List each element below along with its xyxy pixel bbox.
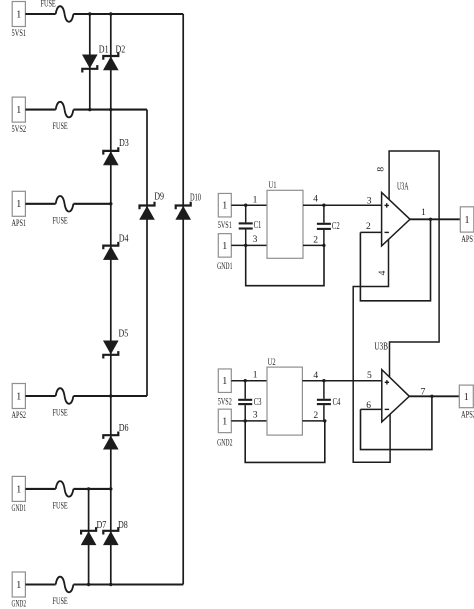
svg-text:D4: D4	[119, 234, 129, 245]
wire U2 bypass loop (pin 3 to pin 2)	[245, 421, 325, 463]
wire APS1 to fuse F3	[25, 203, 55, 205]
zener diode D4	[103, 242, 118, 260]
svg-text:4: 4	[313, 371, 318, 381]
svg-text:C2: C2	[332, 221, 340, 232]
junction C4 bottom	[323, 419, 326, 422]
junction GND2/diode col	[109, 583, 112, 586]
wire GND1 rail	[73, 488, 110, 490]
svg-text:GND1: GND1	[12, 504, 27, 514]
svg-text:GND2: GND2	[217, 438, 232, 448]
wire U3A feedback (output to pin 2)	[360, 219, 430, 300]
wire U3B feedback (output to pin 6)	[361, 396, 432, 449]
wire U3A pin 2 input	[360, 231, 381, 233]
svg-text:5VS1: 5VS1	[218, 221, 232, 231]
junction C4 top	[322, 379, 325, 382]
svg-text:3: 3	[253, 235, 258, 245]
fuse F3	[56, 196, 74, 212]
U3B plus input marker	[385, 380, 389, 384]
IC U1	[267, 190, 303, 258]
svg-text:1: 1	[16, 484, 21, 495]
connector 5VS2 (left, pin 1)	[12, 97, 25, 122]
svg-text:D5: D5	[119, 329, 129, 340]
svg-text:D10: D10	[190, 193, 201, 204]
junction APS2/diode col	[109, 394, 112, 397]
wire GND2 rail	[73, 583, 183, 585]
svg-text:4: 4	[313, 195, 318, 205]
svg-text:3: 3	[253, 410, 258, 420]
svg-text:7: 7	[421, 388, 426, 398]
svg-text:8: 8	[377, 167, 387, 172]
op-amp U3A	[382, 193, 410, 246]
svg-text:APS2: APS2	[461, 411, 474, 421]
wire D1 branch (5VS1 to 5VS2)	[89, 14, 91, 110]
svg-text:FUSE: FUSE	[53, 122, 68, 132]
wire 5VS2 to U2 pin 1	[231, 380, 267, 382]
zener diode D1	[82, 55, 97, 73]
fuse F2	[56, 102, 74, 118]
svg-text:1: 1	[464, 392, 469, 403]
junction C2 bottom	[322, 244, 325, 247]
wire APS1 rail	[73, 203, 110, 205]
wire U3B output	[409, 395, 459, 397]
svg-text:D6: D6	[119, 423, 129, 434]
junction U3A output/feedback	[429, 218, 432, 221]
U3A plus input marker	[385, 203, 389, 207]
svg-text:2: 2	[313, 235, 318, 245]
svg-text:1: 1	[16, 199, 21, 210]
junction C3 top	[244, 379, 247, 382]
svg-text:U3A: U3A	[397, 181, 409, 193]
IC U2	[267, 367, 302, 435]
junction 5VS1/D2	[109, 12, 112, 15]
zener diode D3	[103, 147, 118, 165]
wire U3A pin 8 supply rail	[389, 151, 439, 379]
fuse F5	[56, 481, 74, 497]
svg-text:D7: D7	[97, 520, 107, 531]
svg-text:FUSE: FUSE	[53, 409, 68, 419]
wire U2 pin 2	[302, 420, 325, 422]
svg-text:D9: D9	[154, 191, 164, 202]
zener diode D10	[176, 202, 191, 220]
svg-text:GND1: GND1	[217, 262, 232, 272]
svg-text:2: 2	[313, 411, 318, 421]
junction C1 top	[244, 204, 247, 207]
wire U1 pin 2	[303, 244, 325, 246]
connector GND2 (left, pin 1)	[12, 572, 25, 597]
junction APS1/diode col	[109, 202, 112, 205]
wire U2 pin 4 to U3B pin 5	[302, 380, 381, 382]
wire GND1 to U1 pin 3	[231, 244, 267, 246]
connector 5VS2 (right, pin 1)	[218, 369, 231, 393]
connector APS1 (right output, pin 1)	[460, 207, 474, 232]
svg-text:1: 1	[16, 9, 21, 20]
op-amp U3B	[382, 370, 410, 422]
capacitor C1	[239, 205, 253, 245]
fuse F6	[56, 577, 74, 593]
connector GND1 (right, pin 1)	[218, 234, 231, 258]
wire U3A output	[410, 218, 460, 220]
wire U3B pin 6 input	[361, 408, 382, 410]
svg-text:D2: D2	[116, 44, 126, 55]
svg-text:FUSE: FUSE	[53, 216, 68, 226]
connector GND1 (left, pin 1)	[12, 476, 25, 501]
connector GND2 (right, pin 1)	[218, 409, 231, 433]
svg-text:5VS2: 5VS2	[218, 398, 232, 408]
fuse F1	[56, 6, 74, 22]
zener diode D7	[81, 527, 96, 545]
svg-text:1: 1	[253, 371, 258, 381]
zener diode D9	[140, 202, 155, 220]
wire 5VS2 to fuse F2	[25, 109, 55, 111]
svg-text:1: 1	[222, 416, 227, 427]
junction U3B output/feedback	[430, 395, 433, 398]
svg-text:D1: D1	[99, 44, 109, 55]
junction C1 bottom	[244, 244, 247, 247]
junction GND2/D7	[87, 583, 90, 586]
U3A minus input marker	[385, 231, 389, 233]
svg-text:5VS2: 5VS2	[12, 125, 27, 135]
U3B minus input marker	[385, 408, 389, 410]
svg-text:U3B: U3B	[374, 341, 388, 352]
wire U1 bypass loop (pin 3 to pin 2)	[246, 245, 324, 285]
junction 5VS2/D2 col	[109, 108, 112, 111]
wire APS2 to fuse F4	[25, 395, 55, 397]
svg-text:1: 1	[465, 215, 470, 226]
svg-text:1: 1	[222, 241, 227, 252]
svg-text:APS2: APS2	[12, 411, 27, 421]
svg-text:U2: U2	[268, 358, 276, 368]
zener diode D5	[103, 341, 118, 359]
svg-text:4: 4	[378, 270, 388, 275]
svg-text:1: 1	[16, 580, 21, 591]
svg-text:1: 1	[253, 195, 258, 205]
wire 5VS1 to fuse F1	[25, 13, 55, 15]
svg-text:C1: C1	[254, 220, 262, 231]
fuse F4	[56, 388, 74, 404]
svg-text:5: 5	[367, 371, 372, 381]
wire 5VS1 rail	[73, 13, 183, 15]
wire D7 branch (GND1 to GND2)	[88, 489, 90, 585]
capacitor C3	[238, 381, 252, 421]
svg-text:FUSE: FUSE	[53, 501, 68, 511]
svg-text:3: 3	[367, 197, 372, 207]
wire D10 branch (5VS1 to GND2)	[182, 14, 184, 585]
svg-text:APS1: APS1	[12, 219, 27, 229]
wire diode column D2-D8 (x=110.8)	[110, 14, 112, 585]
svg-text:D8: D8	[118, 520, 128, 531]
svg-text:6: 6	[366, 401, 371, 411]
capacitor C4	[317, 381, 331, 421]
svg-text:2: 2	[366, 222, 371, 232]
wire U3A pin 4	[353, 238, 390, 462]
wire APS2 rail	[73, 395, 147, 397]
wire GND2 to U2 pin 3	[231, 420, 267, 422]
zener diode D6	[103, 432, 118, 450]
wire U1 pin 4 to U3A pin 3	[303, 204, 382, 206]
svg-text:FUSE: FUSE	[53, 597, 68, 607]
junction 5VS2/D1	[88, 108, 91, 111]
svg-text:FUSE: FUSE	[41, 0, 56, 10]
connector 5VS1 (left, pin 1)	[12, 2, 25, 27]
svg-text:1: 1	[222, 376, 227, 387]
junction 5VS1/D1	[88, 12, 91, 15]
wire GND1 to fuse F5	[25, 488, 55, 490]
connector APS2 (right output, pin 1)	[459, 385, 473, 408]
svg-text:GND2: GND2	[12, 600, 27, 609]
svg-text:APS1: APS1	[461, 235, 474, 245]
svg-text:U1: U1	[269, 181, 277, 191]
wire 5VS2 rail	[73, 109, 147, 111]
connector APS1 (left, pin 1)	[12, 191, 25, 216]
wire D9 branch (5VS2 to APS2)	[146, 110, 148, 396]
svg-text:C4: C4	[333, 397, 341, 408]
connector 5VS1 (right, pin 1)	[218, 193, 231, 217]
svg-text:D3: D3	[119, 138, 129, 149]
junction C3 bottom	[244, 419, 247, 422]
wire GND2 to fuse F6	[25, 583, 55, 585]
connector APS2 (left, pin 1)	[12, 384, 25, 409]
svg-text:1: 1	[222, 201, 227, 212]
wire 5VS1 to U1 pin 1	[231, 204, 267, 206]
capacitor C2	[317, 205, 331, 245]
junction GND1/D7	[87, 487, 90, 490]
zener diode D8	[103, 527, 118, 545]
junction C2 top	[322, 204, 325, 207]
zener diode D2	[103, 52, 118, 70]
svg-text:C3: C3	[254, 397, 262, 408]
svg-text:5VS1: 5VS1	[12, 29, 27, 39]
svg-text:1: 1	[16, 105, 21, 116]
svg-text:1: 1	[421, 208, 426, 218]
svg-text:1: 1	[16, 391, 21, 402]
junction GND1/diode col	[109, 487, 112, 490]
